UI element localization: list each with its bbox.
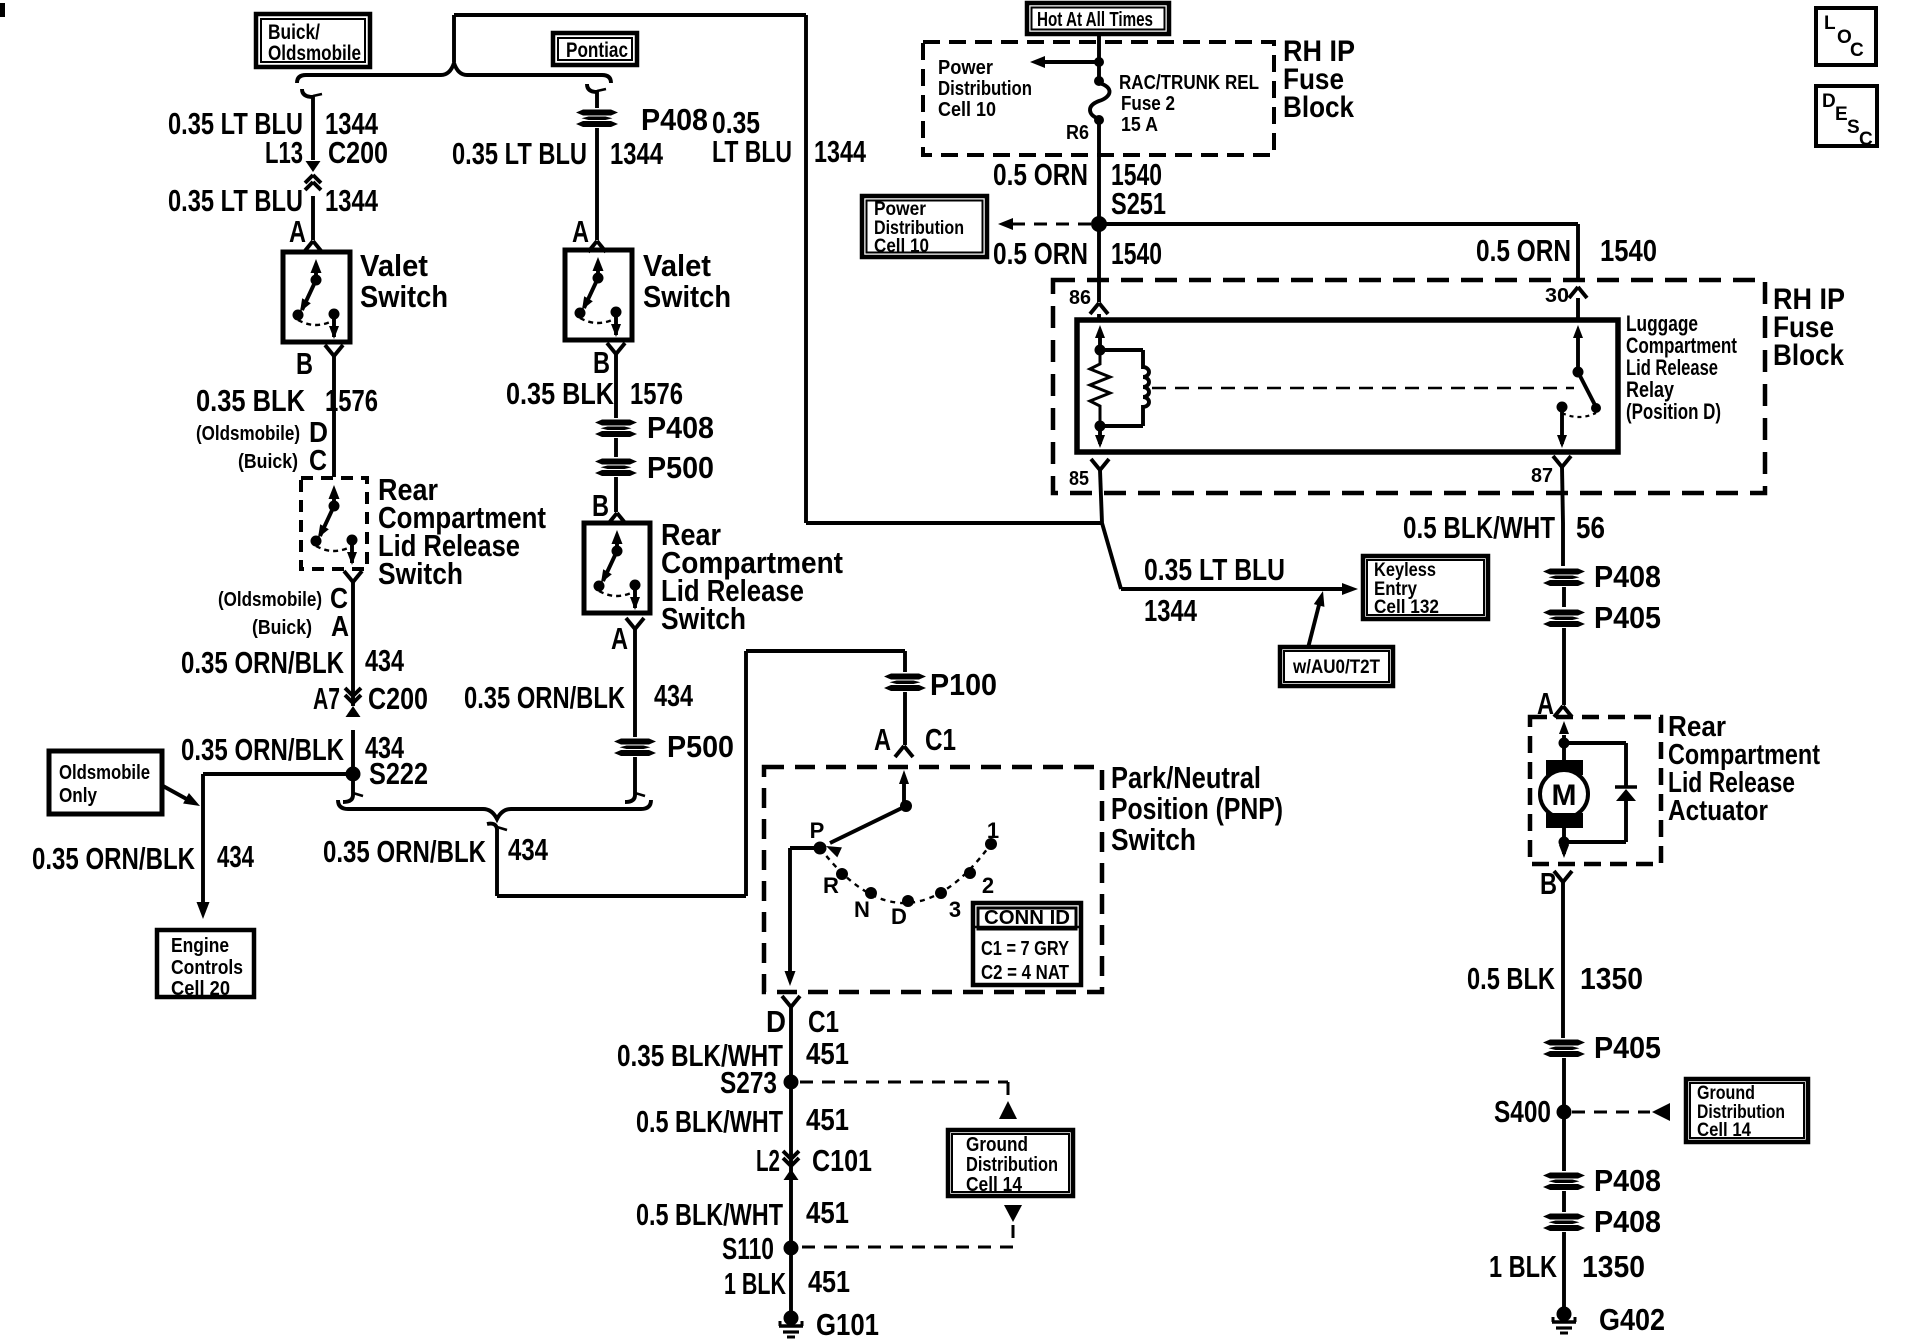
svg-text:S400: S400 [1494, 1094, 1551, 1129]
svg-text:Switch: Switch [360, 279, 448, 314]
svg-text:Oldsmobile: Oldsmobile [268, 42, 361, 65]
svg-text:CONN ID: CONN ID [984, 907, 1070, 929]
svg-text:P408: P408 [647, 410, 714, 445]
svg-text:1350: 1350 [1582, 1249, 1645, 1284]
svg-text:1576: 1576 [325, 383, 378, 418]
svg-text:451: 451 [806, 1102, 849, 1137]
svg-text:P408: P408 [641, 102, 708, 137]
svg-text:C1: C1 [808, 1004, 839, 1039]
svg-text:Cell 20: Cell 20 [171, 978, 230, 1000]
svg-text:P500: P500 [647, 450, 714, 485]
svg-text:0.5 BLK: 0.5 BLK [1467, 961, 1555, 996]
svg-text:G402: G402 [1599, 1302, 1665, 1337]
svg-text:Switch: Switch [661, 601, 746, 636]
svg-text:S273: S273 [720, 1065, 777, 1100]
svg-text:0.35 ORN/BLK: 0.35 ORN/BLK [323, 834, 486, 869]
svg-text:R6: R6 [1066, 122, 1089, 144]
svg-text:1 BLK: 1 BLK [724, 1266, 786, 1301]
svg-text:434: 434 [365, 643, 405, 678]
svg-text:S222: S222 [369, 756, 428, 791]
svg-text:C2 = 4 NAT: C2 = 4 NAT [981, 962, 1069, 984]
svg-text:Only: Only [59, 785, 98, 807]
svg-text:451: 451 [808, 1264, 850, 1299]
svg-text:0.35 ORN/BLK: 0.35 ORN/BLK [32, 841, 195, 876]
svg-text:w/AU0/T2T: w/AU0/T2T [1292, 657, 1380, 678]
svg-text:(Position D): (Position D) [1626, 399, 1721, 424]
svg-text:Valet: Valet [360, 248, 428, 283]
svg-text:C1 = 7 GRY: C1 = 7 GRY [981, 938, 1070, 960]
svg-text:A: A [611, 621, 628, 656]
svg-text:Block: Block [1283, 91, 1354, 124]
svg-text:Cell 10: Cell 10 [874, 236, 929, 257]
svg-text:Position (PNP): Position (PNP) [1111, 791, 1283, 826]
svg-text:A7: A7 [313, 681, 340, 716]
svg-text:0.35 ORN/BLK: 0.35 ORN/BLK [464, 680, 625, 715]
svg-text:D: D [1822, 91, 1836, 112]
svg-text:C200: C200 [328, 135, 388, 170]
svg-text:0.35 BLK: 0.35 BLK [506, 376, 614, 411]
svg-text:P500: P500 [667, 729, 734, 764]
svg-text:1344: 1344 [325, 183, 379, 218]
svg-text:D: D [891, 904, 907, 929]
svg-text:P100: P100 [930, 667, 997, 702]
svg-text:3: 3 [949, 897, 961, 922]
svg-text:B: B [592, 488, 609, 523]
svg-text:Switch: Switch [1111, 822, 1196, 857]
svg-text:C200: C200 [368, 681, 428, 716]
svg-text:1540: 1540 [1600, 233, 1657, 268]
svg-text:Fuse 2: Fuse 2 [1121, 93, 1175, 115]
svg-text:C: C [1850, 40, 1864, 61]
svg-text:Distribution: Distribution [938, 78, 1032, 100]
svg-text:P408: P408 [1594, 559, 1661, 594]
svg-text:A: A [289, 214, 306, 249]
svg-text:A: A [331, 611, 349, 643]
svg-text:Actuator: Actuator [1668, 795, 1768, 827]
svg-text:1344: 1344 [610, 136, 664, 171]
svg-text:(Buick): (Buick) [252, 617, 312, 639]
svg-text:LT BLU: LT BLU [712, 134, 792, 169]
svg-text:P408: P408 [1594, 1204, 1661, 1239]
svg-text:0.5 BLK/WHT: 0.5 BLK/WHT [636, 1104, 783, 1139]
svg-text:Pontiac: Pontiac [566, 39, 628, 62]
svg-text:Cell 10: Cell 10 [938, 99, 996, 121]
svg-text:Power: Power [874, 199, 927, 220]
svg-text:B: B [296, 346, 313, 381]
svg-text:S: S [1847, 117, 1860, 138]
svg-text:1 BLK: 1 BLK [1489, 1249, 1557, 1284]
svg-text:D: D [766, 1004, 786, 1039]
svg-text:Engine: Engine [171, 935, 229, 957]
svg-text:Ground: Ground [966, 1134, 1028, 1156]
svg-text:P: P [810, 818, 825, 843]
svg-text:Switch: Switch [378, 556, 463, 591]
svg-text:Keyless: Keyless [1374, 560, 1436, 581]
svg-text:451: 451 [806, 1036, 849, 1071]
svg-text:P405: P405 [1594, 600, 1661, 635]
svg-text:0.5 ORN: 0.5 ORN [993, 236, 1088, 271]
svg-text:Cell 14: Cell 14 [966, 1174, 1023, 1196]
svg-text:Valet: Valet [643, 248, 711, 283]
svg-text:1344: 1344 [1144, 593, 1198, 628]
svg-text:Distribution: Distribution [966, 1154, 1058, 1176]
svg-text:A: A [572, 214, 589, 249]
svg-text:Power: Power [938, 57, 993, 79]
svg-text:Park/Neutral: Park/Neutral [1111, 760, 1261, 795]
svg-text:P405: P405 [1594, 1030, 1661, 1065]
svg-text:15 A: 15 A [1121, 114, 1158, 136]
svg-text:(Oldsmobile): (Oldsmobile) [218, 589, 322, 611]
svg-text:S110: S110 [722, 1231, 774, 1266]
svg-text:B: B [593, 345, 610, 380]
svg-text:Buick/: Buick/ [268, 21, 320, 44]
svg-text:0.5 BLK/WHT: 0.5 BLK/WHT [1403, 510, 1555, 545]
svg-text:E: E [1835, 104, 1848, 125]
svg-text:0.35 ORN/BLK: 0.35 ORN/BLK [181, 732, 344, 767]
svg-text:G101: G101 [816, 1307, 879, 1342]
svg-text:0.5 ORN: 0.5 ORN [1476, 233, 1571, 268]
svg-text:1540: 1540 [1111, 236, 1162, 271]
svg-text:451: 451 [806, 1195, 849, 1230]
svg-text:1: 1 [987, 818, 999, 843]
svg-text:C101: C101 [812, 1143, 872, 1178]
svg-text:1350: 1350 [1580, 961, 1643, 996]
svg-text:L: L [1824, 13, 1836, 34]
svg-text:(Oldsmobile): (Oldsmobile) [196, 423, 300, 445]
svg-text:Oldsmobile: Oldsmobile [59, 762, 150, 784]
svg-text:434: 434 [508, 832, 549, 867]
svg-text:434: 434 [654, 678, 694, 713]
svg-text:0.35 ORN/BLK: 0.35 ORN/BLK [181, 645, 344, 680]
svg-text:(Buick): (Buick) [238, 451, 298, 473]
svg-text:30: 30 [1545, 285, 1569, 307]
svg-text:A: A [874, 722, 891, 757]
svg-text:R: R [823, 873, 839, 898]
svg-text:434: 434 [217, 839, 255, 874]
svg-text:1344: 1344 [814, 134, 867, 169]
svg-text:RAC/TRUNK REL: RAC/TRUNK REL [1119, 72, 1259, 94]
svg-text:0.5 BLK/WHT: 0.5 BLK/WHT [636, 1197, 783, 1232]
svg-text:P408: P408 [1594, 1163, 1661, 1198]
svg-text:0.35 BLK: 0.35 BLK [196, 383, 305, 418]
svg-text:0.35 LT BLU: 0.35 LT BLU [452, 136, 587, 171]
svg-text:0.35 LT BLU: 0.35 LT BLU [1144, 552, 1285, 587]
svg-text:0.35 LT BLU: 0.35 LT BLU [168, 183, 303, 218]
svg-text:Controls: Controls [171, 957, 243, 979]
svg-text:C1: C1 [925, 722, 956, 757]
svg-text:Cell 14: Cell 14 [1697, 1120, 1751, 1141]
svg-text:Hot At All Times: Hot At All Times [1037, 9, 1153, 31]
svg-text:Ground: Ground [1697, 1083, 1755, 1104]
svg-text:Switch: Switch [643, 279, 731, 314]
svg-text:L13: L13 [265, 135, 303, 170]
svg-text:56: 56 [1576, 510, 1605, 545]
svg-text:87: 87 [1531, 465, 1553, 487]
svg-text:0.5 ORN: 0.5 ORN [993, 157, 1088, 192]
svg-text:86: 86 [1069, 287, 1091, 309]
svg-text:Cell 132: Cell 132 [1374, 597, 1439, 618]
svg-text:2: 2 [982, 873, 994, 898]
svg-text:N: N [854, 897, 870, 922]
svg-text:C: C [1859, 129, 1873, 150]
svg-text:L2: L2 [756, 1143, 780, 1178]
svg-text:Block: Block [1773, 339, 1844, 372]
svg-text:M: M [1552, 779, 1577, 812]
svg-text:1576: 1576 [630, 376, 683, 411]
svg-text:C: C [309, 445, 327, 477]
svg-text:S251: S251 [1111, 186, 1166, 221]
svg-text:85: 85 [1069, 468, 1089, 490]
